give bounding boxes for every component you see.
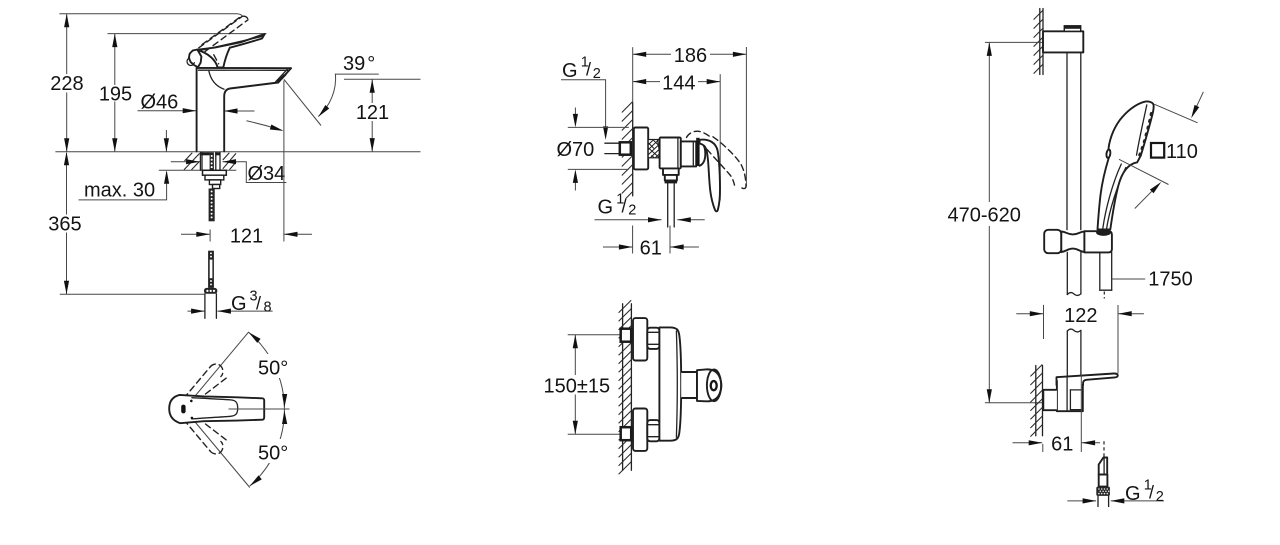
svg-text:150±15: 150±15 — [544, 375, 611, 397]
dimension 122 — [1043, 305, 1045, 339]
shower button on back edge — [1106, 149, 1111, 158]
wall bottom strip — [1035, 366, 1037, 436]
svg-text:G: G — [598, 197, 614, 219]
holder arm — [1084, 231, 1112, 252]
outlet dark band — [665, 181, 678, 184]
50 deg boundary line lower — [193, 420, 250, 488]
extension line 144 right — [719, 74, 721, 200]
knob mouth — [711, 381, 717, 390]
dashed lever raised — [687, 131, 747, 188]
svg-text:G: G — [231, 293, 247, 315]
washer under deck — [203, 170, 227, 175]
spout rim inner line — [199, 69, 289, 71]
mixer body block — [660, 138, 681, 169]
hose connector shaft — [1099, 475, 1108, 487]
flange escutcheon — [634, 128, 648, 170]
supply tube below collar — [204, 294, 206, 319]
centerline — [229, 408, 290, 410]
cartridge ring — [681, 141, 696, 166]
svg-text:Ø70: Ø70 — [557, 139, 595, 161]
rail upper segment — [1066, 52, 1068, 229]
svg-text:61: 61 — [1051, 434, 1073, 456]
shank left wall — [199, 152, 201, 170]
outlet pipe — [667, 183, 669, 227]
svg-text:/: / — [1149, 483, 1154, 503]
holder knob — [1044, 230, 1061, 253]
handle inner contour — [192, 398, 238, 419]
spout inner transition curve — [209, 70, 224, 89]
nut 2 — [209, 180, 220, 185]
escutcheon top — [633, 318, 647, 360]
spray swivel arc — [247, 121, 282, 130]
svg-text:Ø34: Ø34 — [248, 163, 286, 185]
hose dashed continuation — [1103, 292, 1105, 299]
handle solid body — [169, 395, 264, 423]
mixer body side — [659, 327, 681, 440]
label 1750 with leader — [1112, 278, 1146, 280]
aerator end face — [278, 68, 291, 82]
dashed lever inner neck — [214, 55, 219, 64]
deck top line — [55, 151, 420, 153]
spray face inner line — [1137, 105, 1147, 155]
dimension 61 — [632, 226, 634, 254]
lever blade highlight line — [200, 36, 263, 50]
faucet column right edge with fillet to spout underside — [224, 83, 278, 152]
dashed handle position upper — [184, 364, 227, 398]
spray direction line — [284, 79, 321, 125]
deck hatching — [184, 153, 236, 170]
handle shading lines — [1103, 164, 1122, 229]
supply elbow square G1/2 — [620, 142, 631, 154]
svg-text:50°: 50° — [258, 443, 288, 465]
svg-text:122: 122 — [1064, 305, 1097, 327]
angle arc lower — [250, 409, 285, 486]
wall lines — [622, 304, 624, 471]
dimension G3/8 — [188, 310, 205, 312]
spout top rim — [197, 67, 291, 69]
supply elbow square bottom — [621, 427, 632, 440]
svg-text:39°: 39° — [343, 53, 375, 75]
svg-text:61: 61 — [640, 238, 662, 260]
aerator dark wedge — [276, 74, 287, 82]
hand shower head and handle — [1098, 101, 1154, 229]
bottom bracket outlet shelf — [1057, 373, 1118, 385]
dimension O70 — [568, 126, 629, 128]
handle dots — [190, 400, 193, 403]
deck bottom line — [159, 169, 237, 171]
svg-text:/: / — [586, 60, 591, 80]
dashed handle position lower — [184, 420, 227, 454]
aerator extension line — [283, 81, 285, 242]
pop-up rod upper (dark tube) — [208, 251, 214, 288]
bracket cap — [1064, 26, 1080, 32]
dimension square 110 upper tangent — [1154, 104, 1197, 123]
knob face ellipse — [707, 369, 721, 401]
wall bottom hatching — [1030, 365, 1042, 437]
wall hatching — [622, 102, 633, 199]
dimension 228 — [66, 14, 68, 74]
knob cap — [697, 369, 721, 401]
threaded nipple — [648, 140, 659, 158]
svg-text:365: 365 — [48, 214, 81, 236]
dimension 470-620 — [985, 41, 1043, 43]
svg-text:2: 2 — [1156, 489, 1164, 505]
extension line 186 right — [745, 47, 747, 187]
bottom reference line (365) — [60, 293, 205, 295]
rail lower segment with break — [1066, 252, 1068, 294]
pipe below nut — [1097, 496, 1099, 507]
dimension 144 — [633, 81, 721, 83]
cap dome — [700, 142, 706, 166]
angle arc upper — [249, 332, 285, 409]
dimension 365 — [66, 153, 68, 215]
nut 3 — [213, 185, 220, 189]
square symbol — [1151, 143, 1164, 158]
dimension 150+-15 — [568, 334, 620, 336]
top rail bracket — [1043, 31, 1083, 52]
50 deg label upper — [256, 354, 282, 378]
dashed raised lever line 1 — [199, 16, 243, 48]
dimension Ø34 — [171, 161, 200, 163]
svg-text:144: 144 — [662, 72, 695, 94]
svg-text:/: / — [256, 294, 261, 314]
svg-text:G: G — [562, 60, 578, 82]
outlet step 2 — [665, 175, 677, 181]
wall hatching — [619, 300, 632, 474]
svg-text:1750: 1750 — [1148, 269, 1193, 291]
body front silhouette line — [675, 331, 678, 437]
dimension 195 — [114, 34, 116, 85]
dashed raised lever middle — [202, 17, 240, 45]
dimension square 110 lower tangent — [1119, 159, 1169, 184]
nut 1 — [205, 175, 224, 180]
lever nose — [189, 50, 202, 68]
svg-text:121: 121 — [230, 225, 263, 247]
svg-text:max. 30: max. 30 — [84, 179, 155, 201]
svg-text:470-620: 470-620 — [948, 204, 1021, 226]
supply elbow stub — [605, 142, 619, 144]
svg-text:G: G — [1125, 483, 1141, 505]
hand shower butt in holder — [1096, 229, 1111, 236]
svg-text:228: 228 — [50, 73, 83, 95]
dimension 61 — [1042, 444, 1044, 452]
dashed raised lever tip — [243, 16, 249, 20]
wall top hatching — [1034, 10, 1043, 73]
extension line top (228) — [59, 13, 237, 15]
bottom bracket body — [1057, 380, 1083, 411]
lever blade — [700, 140, 720, 212]
50 deg boundary line upper — [193, 332, 249, 399]
extension line 195 — [108, 33, 267, 35]
faucet column left edge — [196, 68, 198, 151]
svg-text:2: 2 — [628, 203, 636, 219]
wall top strip — [1039, 9, 1041, 75]
dashed raised lever line 2 — [205, 20, 248, 52]
svg-text:121: 121 — [356, 102, 389, 124]
svg-text:50°: 50° — [258, 358, 288, 380]
union nut top — [647, 328, 659, 349]
dimension 121 (bottom) — [181, 233, 210, 235]
50 deg label lower — [256, 439, 282, 463]
bottom bracket inner lines — [1066, 377, 1068, 411]
dashed hose centerline — [1103, 441, 1105, 459]
ribbed collar — [204, 288, 217, 294]
lever nose small knob — [187, 58, 194, 65]
svg-text:186: 186 — [674, 45, 707, 67]
union nut bottom — [647, 420, 659, 441]
svg-text:110: 110 — [1166, 141, 1198, 163]
svg-text:8: 8 — [264, 300, 272, 316]
knob neck — [681, 372, 697, 398]
holder clamp waist — [1061, 231, 1084, 252]
svg-text:/: / — [622, 196, 627, 216]
lever blade (solid, down position) — [197, 34, 265, 68]
bottom bracket escutcheon — [1043, 390, 1057, 410]
dimension 121 (right side) — [344, 78, 421, 80]
supply elbow square top — [621, 329, 632, 342]
dimension 186 — [633, 53, 747, 55]
shank right wall — [215, 152, 217, 170]
handle black pill — [181, 405, 185, 414]
knurled nut G1/2 — [1096, 487, 1110, 496]
escutcheon bottom — [633, 409, 647, 451]
threaded rod in shank — [210, 152, 214, 170]
outlet step 1 — [663, 168, 679, 175]
shank top caps — [201, 152, 210, 155]
hose below holder — [1099, 252, 1101, 290]
nozzle dots on face — [1138, 112, 1153, 157]
hose connector tip — [1099, 458, 1108, 475]
wall face / extension line — [632, 47, 634, 103]
threaded rod below nuts — [209, 189, 215, 222]
svg-text:195: 195 — [99, 83, 132, 105]
lever hub thick bar — [696, 138, 699, 166]
label G1/2 with arrows — [1067, 500, 1096, 502]
